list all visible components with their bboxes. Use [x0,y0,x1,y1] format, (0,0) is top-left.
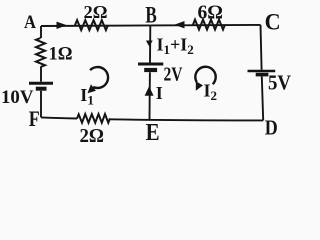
battery V2 2V short plate [144,68,157,72]
loop current arrow I2 (counterclockwise arc, right mesh) [195,67,215,91]
loop current arrow I1 (clockwise arc, left mesh) [88,67,109,93]
battery V3 5V short plate [256,73,269,77]
label I2 [204,81,218,104]
wire B to E (middle vertical) [149,25,152,119]
svg-text:1Ω: 1Ω [49,44,73,65]
resistor R2 6ohm (top right) [193,20,225,30]
svg-text:2Ω: 2Ω [80,125,105,144]
current arrow I1+I2 pointing down (middle branch) [146,41,153,47]
label 6ohm [198,1,224,23]
current arrow on wire B-C pointing left [174,21,184,28]
label 5V [268,71,291,95]
node A [24,12,36,33]
svg-text:C: C [265,10,281,35]
label 2ohm top [84,2,108,22]
label 1ohm [49,44,73,65]
svg-text:A: A [24,12,36,33]
label 2ohm bottom [80,125,105,147]
node E [146,120,160,146]
wire F to E to D (bottom horizontal) [41,117,263,120]
resistor R3 1ohm (left vertical) [36,38,45,67]
wire C to D (right vertical) [261,25,264,121]
label I [156,83,163,103]
node D [265,115,278,139]
battery V1 10V short plate [36,87,47,91]
svg-text:E: E [146,120,160,144]
svg-text:F: F [29,106,40,131]
resistor R4 2ohm (bottom) [77,114,110,123]
label I1 [80,85,94,108]
svg-text:I: I [156,83,163,103]
svg-text:2Ω: 2Ω [84,2,108,22]
svg-text:I2: I2 [204,81,218,104]
svg-text:5V: 5V [268,71,291,95]
wire B to C (top right horizontal) [150,24,260,27]
current arrow on wire A-B pointing right [57,22,68,29]
node C [265,10,281,35]
wire A to F (left vertical) [40,26,42,117]
node F [29,106,40,131]
resistor R1 2ohm (top left) [75,20,108,30]
current arrow I pointing up (middle branch below battery) [145,86,154,96]
svg-text:I1+I2: I1+I2 [157,35,194,58]
label 10V [1,88,34,108]
battery V1 10V long plate [29,82,53,85]
battery V2 2V long plate [138,63,163,66]
battery V3 5V long plate [248,70,276,73]
svg-text:2V: 2V [164,65,183,86]
node B [145,3,156,28]
label I1+I2 [157,35,194,58]
svg-text:D: D [265,115,278,139]
svg-text:10V: 10V [1,88,34,108]
label 2V [164,65,183,86]
wire A to B (top left horizontal) [41,24,150,27]
svg-text:6Ω: 6Ω [198,1,224,23]
svg-text:B: B [145,3,156,28]
